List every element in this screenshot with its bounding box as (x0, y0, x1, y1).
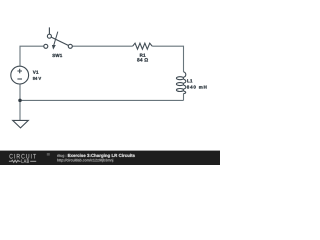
voltage source V1 (11, 66, 29, 84)
label V1 (33, 71, 39, 74)
switch lever (51, 37, 68, 45)
wire: resistor to top-right corner down to inductor (152, 46, 183, 72)
switch actuator arrow (54, 32, 58, 45)
junction node (18, 99, 22, 103)
resistor R1 (133, 43, 153, 49)
trademark mark (47, 153, 50, 156)
logo tail line (30, 160, 36, 162)
logo CIRCUIT (9, 154, 36, 159)
label SW1 (52, 54, 62, 57)
watermark user (57, 154, 66, 157)
switch right terminal (68, 44, 72, 48)
wire: junction stub to ground (19, 100, 21, 120)
logo LAB (22, 159, 29, 163)
value 84 ohm (137, 58, 148, 61)
switch left terminal (44, 44, 48, 48)
wire: V1 top to switch left terminal (20, 46, 44, 66)
watermark title (68, 154, 135, 158)
value 84 V (33, 77, 41, 80)
logo underline-zigzag (9, 160, 21, 162)
circuit schematic canvas (0, 0, 220, 165)
switch top terminal (47, 34, 51, 38)
label L1 (187, 79, 192, 82)
inductor L1 (176, 72, 185, 94)
wire: inductor bottom to bottom-right corner (183, 94, 185, 101)
ground (13, 120, 29, 128)
watermark url (57, 159, 113, 162)
switch pole stub (48, 27, 50, 34)
value 840 mH (187, 85, 207, 88)
watermark bar (0, 151, 220, 165)
wire: bottom rail (20, 99, 184, 101)
wire: switch right terminal to resistor (72, 45, 132, 47)
label R1 (140, 54, 146, 57)
wire: V1 bottom to ground junction (19, 84, 21, 100)
switch SW1 (44, 27, 73, 48)
